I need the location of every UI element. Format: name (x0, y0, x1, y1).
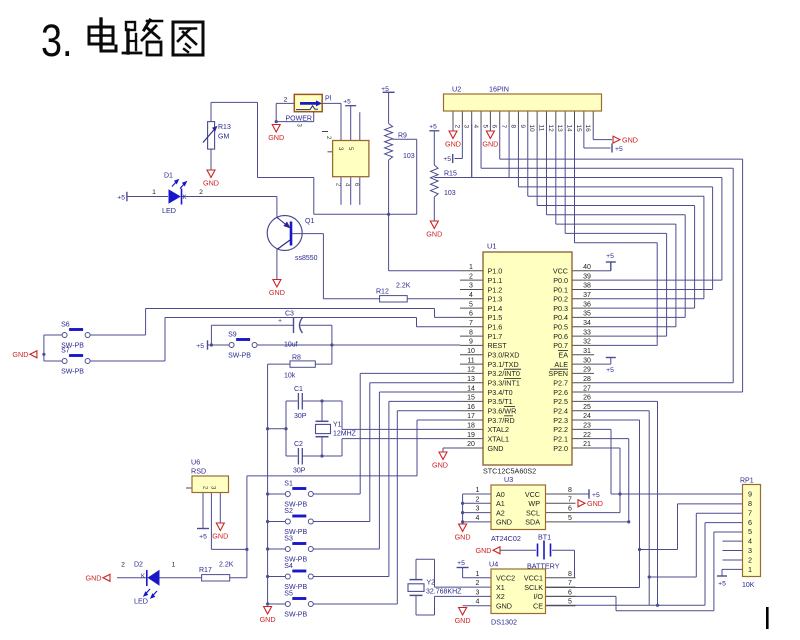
svg-text:P2.3: P2.3 (553, 416, 568, 425)
svg-text:+5: +5 (606, 253, 614, 260)
svg-text:VCC1: VCC1 (524, 574, 543, 583)
svg-text:16: 16 (467, 404, 475, 411)
svg-text:10: 10 (528, 125, 535, 133)
svg-text:GND: GND (445, 140, 461, 149)
svg-text:11: 11 (467, 357, 474, 364)
svg-text:+5: +5 (117, 195, 125, 202)
svg-text:P3.4/T0: P3.4/T0 (488, 388, 513, 397)
svg-text:P3.2/INT0: P3.2/INT0 (488, 369, 520, 378)
svg-text:P1.2: P1.2 (488, 285, 503, 294)
svg-text:7: 7 (469, 320, 473, 327)
svg-text:P1.7: P1.7 (488, 332, 503, 341)
svg-text:GND: GND (455, 533, 471, 542)
svg-text:Q1: Q1 (305, 218, 314, 225)
svg-text:+5: +5 (196, 343, 204, 350)
svg-text:19: 19 (467, 432, 475, 439)
svg-text:I/O: I/O (533, 592, 543, 601)
svg-text:S9: S9 (228, 332, 237, 339)
svg-text:13: 13 (467, 376, 475, 383)
svg-text:U2: U2 (452, 85, 461, 94)
svg-text:3: 3 (463, 125, 470, 129)
svg-text:+5: +5 (343, 99, 351, 106)
svg-text:P3.0/RXD: P3.0/RXD (488, 351, 520, 360)
svg-text:5: 5 (568, 515, 572, 522)
svg-text:30P: 30P (293, 467, 306, 474)
svg-text:LED: LED (134, 597, 148, 606)
svg-text:6: 6 (568, 506, 572, 513)
svg-text:10K: 10K (742, 582, 755, 589)
svg-text:GND: GND (432, 461, 448, 470)
svg-text:SCLK: SCLK (524, 583, 543, 592)
svg-text:P0.5: P0.5 (553, 323, 568, 332)
svg-text:P2.2: P2.2 (553, 425, 568, 434)
svg-text:2: 2 (469, 273, 473, 280)
svg-text:4: 4 (748, 537, 752, 546)
svg-text:+5: +5 (429, 124, 437, 131)
svg-text:P2.5: P2.5 (553, 397, 568, 406)
svg-text:ss8550: ss8550 (295, 255, 318, 262)
svg-text:VCC: VCC (553, 267, 568, 276)
svg-text:BATTERY: BATTERY (527, 562, 560, 571)
svg-text:24: 24 (583, 413, 591, 420)
svg-text:P3.3/INT1: P3.3/INT1 (488, 379, 520, 388)
svg-text:C3: C3 (285, 311, 294, 318)
svg-text:P0.6: P0.6 (553, 332, 568, 341)
svg-text:S7: S7 (61, 348, 70, 355)
svg-text:29: 29 (583, 367, 591, 374)
svg-text:P3.1/TXD: P3.1/TXD (488, 360, 519, 369)
svg-text:2: 2 (476, 496, 480, 503)
svg-text:P1.4: P1.4 (488, 304, 503, 313)
svg-text:K: K (183, 195, 187, 201)
svg-text:10k: 10k (284, 373, 296, 380)
svg-text:GND: GND (260, 615, 276, 624)
svg-text:11: 11 (537, 125, 544, 132)
svg-text:DS1302: DS1302 (491, 618, 517, 627)
svg-text:15: 15 (467, 395, 475, 402)
svg-text:+5: +5 (199, 534, 207, 541)
svg-text:22: 22 (583, 432, 591, 439)
svg-text:GND: GND (622, 135, 638, 144)
svg-text:POWER: POWER (286, 116, 312, 123)
svg-text:K: K (141, 574, 145, 580)
svg-text:31: 31 (583, 348, 591, 355)
svg-text:26: 26 (583, 395, 591, 402)
svg-text:3: 3 (476, 589, 480, 596)
svg-text:R9: R9 (398, 133, 407, 140)
svg-text:GND: GND (455, 616, 471, 625)
svg-text:P2.4: P2.4 (553, 407, 568, 416)
svg-text:14: 14 (467, 385, 475, 392)
svg-text:35: 35 (583, 311, 591, 318)
svg-text:Pl: Pl (325, 96, 332, 103)
svg-text:8: 8 (568, 571, 572, 578)
svg-text:GND: GND (482, 140, 498, 149)
svg-text:VCC2: VCC2 (496, 574, 515, 583)
svg-text:GND: GND (496, 602, 512, 611)
svg-text:S4: S4 (284, 563, 293, 570)
svg-text:S1: S1 (284, 481, 293, 488)
svg-text:1: 1 (476, 571, 480, 578)
svg-text:ALE: ALE (554, 360, 568, 369)
svg-text:P2.1: P2.1 (553, 434, 568, 443)
svg-text:9: 9 (748, 490, 752, 499)
svg-text:27: 27 (583, 385, 591, 392)
svg-text:2: 2 (453, 125, 460, 129)
svg-text:9: 9 (469, 339, 473, 346)
svg-text:P3.7/RD: P3.7/RD (488, 416, 515, 425)
svg-text:4: 4 (476, 599, 480, 606)
svg-text:GND: GND (587, 499, 603, 508)
svg-text:30P: 30P (294, 413, 307, 420)
svg-text:7: 7 (568, 580, 572, 587)
svg-text:4: 4 (469, 292, 473, 299)
svg-text:D1: D1 (164, 173, 173, 180)
svg-text:XTAL1: XTAL1 (488, 434, 509, 443)
svg-text:3.: 3. (41, 15, 73, 66)
svg-text:16: 16 (584, 125, 591, 133)
svg-text:RP1: RP1 (740, 478, 754, 485)
svg-text:GND: GND (212, 532, 228, 541)
svg-text:5: 5 (469, 301, 473, 308)
svg-text:6: 6 (491, 125, 498, 129)
svg-text:GND: GND (86, 573, 102, 582)
svg-text:12: 12 (467, 367, 475, 374)
svg-text:P0.1: P0.1 (553, 285, 568, 294)
svg-text:4: 4 (476, 515, 480, 522)
svg-text:P1.6: P1.6 (488, 323, 503, 332)
svg-text:+5: +5 (457, 560, 465, 567)
svg-text:8: 8 (568, 487, 572, 494)
svg-text:2: 2 (476, 580, 480, 587)
svg-text:5: 5 (568, 599, 572, 606)
svg-text:A0: A0 (496, 490, 505, 499)
svg-text:36: 36 (583, 301, 591, 308)
svg-text:33: 33 (583, 329, 591, 336)
svg-text:37: 37 (583, 292, 591, 299)
svg-text:P1.3: P1.3 (488, 295, 503, 304)
svg-text:2.2K: 2.2K (396, 283, 411, 290)
svg-text:P1.5: P1.5 (488, 313, 503, 322)
svg-text:P2.6: P2.6 (553, 388, 568, 397)
svg-text:GND: GND (426, 230, 442, 239)
svg-text:GND: GND (268, 133, 284, 142)
svg-text:2: 2 (284, 97, 288, 104)
svg-text:21: 21 (583, 441, 591, 448)
svg-text:8: 8 (469, 329, 473, 336)
svg-text:10: 10 (467, 348, 475, 355)
svg-text:S5: S5 (284, 591, 293, 598)
svg-text:D2: D2 (134, 562, 143, 569)
svg-text:CE: CE (533, 602, 543, 611)
svg-text:3: 3 (469, 283, 473, 290)
svg-text:1: 1 (152, 189, 156, 196)
svg-text:EA: EA (558, 351, 568, 360)
svg-text:20: 20 (467, 441, 475, 448)
svg-text:38: 38 (583, 283, 591, 290)
svg-text:P3.5/T1: P3.5/T1 (488, 397, 513, 406)
svg-text:+5: +5 (443, 156, 451, 163)
svg-text:WP: WP (528, 499, 540, 508)
svg-text:1: 1 (469, 264, 473, 271)
svg-text:P2.7: P2.7 (553, 379, 568, 388)
svg-text:AT24C02: AT24C02 (491, 534, 521, 543)
svg-text:8: 8 (748, 499, 752, 508)
svg-text:18: 18 (467, 423, 475, 430)
svg-text:P3.6/WR: P3.6/WR (488, 407, 517, 416)
svg-text:P0.7: P0.7 (553, 341, 568, 350)
svg-text:LED: LED (162, 206, 176, 215)
svg-text:23: 23 (583, 423, 591, 430)
svg-text:7: 7 (748, 508, 752, 517)
svg-text:SW-PB: SW-PB (284, 612, 307, 619)
svg-text:S3: S3 (284, 536, 293, 543)
svg-text:30: 30 (583, 357, 591, 364)
svg-text:GND: GND (476, 546, 492, 555)
svg-text:2.2K: 2.2K (219, 562, 234, 569)
svg-text:U3: U3 (504, 475, 513, 484)
svg-text:25: 25 (583, 404, 591, 411)
svg-text:+5: +5 (606, 367, 614, 374)
svg-text:BT1: BT1 (538, 533, 551, 542)
svg-text:+5: +5 (381, 86, 389, 93)
svg-text:12MHZ: 12MHZ (333, 430, 357, 437)
svg-text:RSD: RSD (191, 467, 206, 476)
svg-text:GND: GND (203, 179, 219, 188)
svg-text:XTAL2: XTAL2 (488, 425, 509, 434)
svg-text:S2: S2 (284, 508, 293, 515)
svg-text:X2: X2 (496, 592, 505, 601)
svg-text:3: 3 (748, 546, 752, 555)
svg-text:14: 14 (566, 125, 573, 133)
svg-text:SPEN: SPEN (548, 369, 568, 378)
svg-text:U1: U1 (487, 242, 497, 251)
svg-text:GM: GM (218, 134, 229, 141)
svg-text:S6: S6 (61, 322, 70, 329)
svg-text:7: 7 (568, 496, 572, 503)
svg-text:10uf: 10uf (284, 342, 298, 349)
svg-text:8: 8 (509, 125, 516, 129)
svg-text:4: 4 (472, 125, 479, 129)
svg-text:C2: C2 (294, 441, 303, 448)
svg-text:5: 5 (748, 527, 752, 536)
svg-text:34: 34 (583, 320, 591, 327)
svg-text:2: 2 (199, 189, 203, 196)
svg-text:9: 9 (519, 125, 526, 129)
svg-text:VCC: VCC (525, 490, 540, 499)
svg-text:P0.3: P0.3 (553, 304, 568, 313)
svg-text:GND: GND (496, 518, 512, 527)
svg-text:28: 28 (583, 376, 591, 383)
svg-text:U6: U6 (191, 458, 200, 467)
svg-text:6: 6 (568, 589, 572, 596)
svg-text:2: 2 (121, 562, 125, 569)
svg-text:GND: GND (12, 350, 28, 359)
svg-text:P0.0: P0.0 (553, 276, 568, 285)
svg-text:P0.4: P0.4 (553, 313, 568, 322)
svg-text:+5: +5 (615, 146, 623, 153)
svg-text:R15: R15 (444, 171, 457, 178)
svg-text:SDA: SDA (525, 518, 540, 527)
svg-text:P1.0: P1.0 (488, 267, 503, 276)
svg-text:GND: GND (488, 444, 504, 453)
svg-text:32.768KHZ: 32.768KHZ (426, 589, 462, 596)
svg-text:R17: R17 (199, 567, 212, 574)
svg-text:32: 32 (583, 339, 591, 346)
svg-text:+: + (278, 318, 282, 325)
svg-text:P0.2: P0.2 (553, 295, 568, 304)
svg-text:REST: REST (488, 341, 508, 350)
svg-text:SW-PB: SW-PB (228, 353, 251, 360)
svg-text:40: 40 (583, 264, 591, 271)
svg-text:C1: C1 (294, 386, 303, 393)
svg-text:U4: U4 (489, 560, 498, 569)
svg-text:39: 39 (583, 273, 591, 280)
svg-text:15: 15 (575, 125, 582, 133)
svg-text:6: 6 (469, 311, 473, 318)
svg-text:2: 2 (748, 555, 752, 564)
svg-text:+5: +5 (718, 581, 726, 588)
svg-text:SCL: SCL (526, 508, 540, 517)
svg-text:R12: R12 (376, 289, 389, 296)
svg-text:12: 12 (547, 125, 554, 133)
svg-text:17: 17 (467, 413, 475, 420)
svg-text:5: 5 (481, 125, 488, 129)
svg-text:A2: A2 (496, 508, 505, 517)
svg-text:13: 13 (556, 125, 563, 133)
svg-text:A1: A1 (496, 499, 505, 508)
svg-text:+5: +5 (592, 492, 600, 499)
svg-text:1: 1 (172, 562, 176, 569)
svg-text:R13: R13 (218, 124, 231, 131)
svg-text:P2.0: P2.0 (553, 444, 568, 453)
svg-text:7: 7 (500, 125, 507, 129)
svg-text:103: 103 (444, 190, 456, 197)
svg-text:3: 3 (476, 506, 480, 513)
svg-text:1: 1 (476, 487, 480, 494)
svg-text:Y1: Y1 (333, 421, 342, 428)
svg-text:P1.1: P1.1 (488, 276, 503, 285)
svg-text:16PIN: 16PIN (489, 85, 509, 94)
svg-text:6: 6 (748, 518, 752, 527)
svg-text:103: 103 (403, 153, 415, 160)
svg-text:X1: X1 (496, 583, 505, 592)
svg-text:R8: R8 (292, 354, 301, 361)
svg-text:SW-PB: SW-PB (61, 369, 84, 376)
svg-text:Y2: Y2 (427, 580, 436, 587)
svg-text:GND: GND (269, 288, 285, 297)
svg-text:1: 1 (748, 565, 752, 574)
